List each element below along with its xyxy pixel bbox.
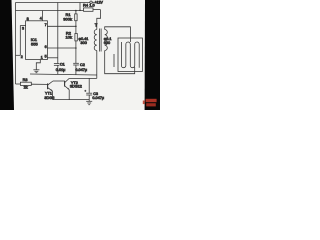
pin 7 wire <box>45 23 77 27</box>
wire YT2 emitter down <box>68 90 70 100</box>
terminal +12V <box>90 1 104 5</box>
resistor R4 <box>83 2 101 11</box>
svg-text:555: 555 <box>31 42 38 47</box>
svg-text:1: 1 <box>41 55 43 59</box>
wire left supply jog <box>15 3 17 11</box>
IC IC1 555 box <box>26 21 48 60</box>
svg-text:φ0.1: φ0.1 <box>104 37 112 41</box>
left black scan border <box>0 0 14 110</box>
svg-text:0.047μ: 0.047μ <box>75 68 87 72</box>
svg-text:C2: C2 <box>80 63 85 67</box>
label secondary phi0.1 600 <box>104 37 112 45</box>
pin 3 wire and jog <box>20 26 25 56</box>
pin 6 wire <box>45 45 77 49</box>
unknown stub near grid <box>113 54 115 67</box>
svg-text:7: 7 <box>45 23 47 27</box>
wire riser to +12V <box>79 3 81 12</box>
pin 4 wire <box>40 11 43 21</box>
wire emitter ground bus <box>53 99 90 101</box>
wire R4 to transformer primary top <box>97 10 101 30</box>
capacitor C1 <box>54 63 65 75</box>
svg-text:C1: C1 <box>60 63 65 67</box>
resistor R1 <box>63 10 77 27</box>
wire YT1 emitter down <box>51 91 53 100</box>
svg-text:600: 600 <box>104 41 110 45</box>
svg-text:+12V: +12V <box>95 1 104 5</box>
svg-text:3DG12: 3DG12 <box>70 84 82 88</box>
ground symbol at C3 <box>86 101 92 104</box>
svg-text:R3: R3 <box>23 78 28 82</box>
svg-text:R4 1.5: R4 1.5 <box>83 2 96 7</box>
pin 8 wire <box>27 17 29 21</box>
svg-text:0.047μ: 0.047μ <box>92 96 104 100</box>
wire left output rail <box>15 11 17 85</box>
grid electrode box <box>118 38 142 72</box>
capacitor C2 <box>73 48 87 75</box>
transformer B secondary winding <box>105 30 108 51</box>
svg-text:2: 2 <box>21 55 23 59</box>
ground symbol under IC <box>33 70 39 73</box>
transformer B core <box>99 29 101 52</box>
transistor YT2 <box>65 78 82 89</box>
transformer B primary winding <box>94 30 97 51</box>
wire secondary top to grid <box>105 27 131 42</box>
label primary phi0.41 300 <box>79 37 89 45</box>
svg-text:300k: 300k <box>63 17 72 22</box>
svg-text:10k: 10k <box>66 34 72 39</box>
svg-text:4: 4 <box>40 16 42 20</box>
svg-text:5: 5 <box>45 54 47 58</box>
label IC1 555 <box>31 37 39 47</box>
capacitor C3 <box>84 78 104 101</box>
pin 5 wire <box>45 54 58 58</box>
svg-text:300: 300 <box>81 41 87 45</box>
svg-text:0.01μ: 0.01μ <box>56 68 66 72</box>
wire ground bus <box>30 74 97 75</box>
red press mark <box>143 99 157 107</box>
svg-text:2k: 2k <box>24 86 28 90</box>
wire YT2 collector to primary <box>69 77 97 79</box>
grid serpentine element <box>121 42 139 68</box>
resistor R3 <box>16 78 32 90</box>
svg-text:φ0.41: φ0.41 <box>79 37 89 41</box>
svg-text:T: T <box>95 23 98 28</box>
resistor R2 <box>66 26 78 48</box>
transistor YT1 <box>44 81 54 100</box>
svg-text:3: 3 <box>22 26 24 30</box>
svg-text:6: 6 <box>45 45 47 49</box>
wire primary bottom <box>96 51 98 79</box>
wire YT1 collector to YT2 base <box>53 80 65 82</box>
svg-text:8: 8 <box>27 17 29 21</box>
wire timing column <box>57 3 59 64</box>
wire +12V top rail <box>16 2 90 4</box>
pin 1 wire <box>36 55 43 69</box>
wire secondary bottom to grid <box>105 51 135 74</box>
right black scan border <box>145 0 160 110</box>
wire R3 to YT1 base <box>31 83 47 85</box>
pin 2 wire <box>16 55 23 59</box>
wire Vcc rail <box>16 10 84 12</box>
